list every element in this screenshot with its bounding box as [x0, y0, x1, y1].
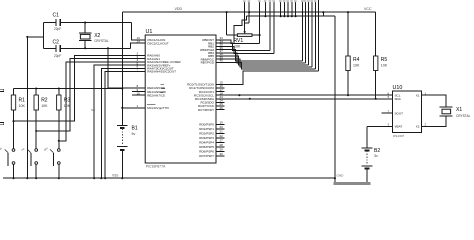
wire VDD left vertical to B1	[121, 12, 123, 125]
U10 pin SOUT 7	[382, 109, 393, 113]
wire RA5 down	[104, 72, 145, 180]
wire OSC1 connection	[132, 23, 146, 40]
wire U10 X1 pin 1 to crystal	[422, 91, 447, 107]
svg-text:RD5/PSP5: RD5/PSP5	[199, 145, 214, 149]
X1 labels	[456, 107, 471, 118]
wire ground distribution line below bus	[246, 15, 335, 17]
push button 3	[50, 141, 60, 179]
svg-text:C1: C1	[53, 13, 60, 19]
wire LCD VDD pin drop	[248, 0, 250, 23]
svg-text:RD2/PSP2: RD2/PSP2	[199, 132, 214, 136]
button 2 label	[20, 146, 26, 152]
wire pullup rail	[14, 87, 123, 89]
B2 labels	[374, 148, 380, 158]
U10 part name DS1307	[393, 134, 404, 138]
svg-text:CRYSTAL: CRYSTAL	[94, 39, 109, 43]
svg-text:RA5/AN4/SS/C2OUT: RA5/AN4/SS/C2OUT	[147, 70, 176, 74]
svg-text:19: 19	[220, 121, 224, 125]
U10 ref label	[393, 85, 403, 91]
svg-text:29: 29	[220, 148, 224, 152]
wire ground drop right	[334, 16, 336, 182]
IC U1 PIC16F877A body	[145, 35, 216, 163]
push button 1	[5, 121, 15, 179]
button 1 label	[0, 146, 3, 152]
wire C nets left vertical	[43, 23, 45, 49]
svg-text:X1: X1	[416, 94, 420, 98]
wire OSC2 connection	[130, 43, 145, 48]
wire RB7 to LCD	[225, 62, 316, 69]
resistor R4	[346, 11, 350, 95]
svg-text:RD1/PSP1: RD1/PSP1	[199, 127, 214, 131]
U1 left pin numbers	[137, 36, 141, 108]
svg-text:R2: R2	[41, 97, 48, 103]
svg-text:C2: C2	[53, 40, 60, 46]
off-sheet mark middle	[0, 123, 4, 125]
X2 labels	[94, 33, 109, 43]
svg-text:U1: U1	[146, 29, 153, 35]
svg-text:SOUT: SOUT	[395, 111, 404, 115]
U1 right pin numbers	[220, 36, 224, 156]
U10 pin SDA number 5	[388, 95, 390, 99]
svg-text:U10: U10	[393, 85, 403, 91]
wire LCD pin verticals from top edge	[260, 0, 319, 71]
R3 labels	[64, 97, 71, 108]
wire RC0 to LCD	[225, 71, 319, 84]
svg-text:22: 22	[220, 134, 224, 138]
svg-text:10K: 10K	[234, 44, 241, 48]
svg-text:OSC2/CLKOUT: OSC2/CLKOUT	[147, 41, 169, 45]
svg-text:RD7/PSP7: RD7/PSP7	[199, 154, 214, 158]
battery B1	[117, 125, 128, 179]
ghost cut-off LCD pin labels at top	[243, 0, 316, 2]
net label VSS	[112, 174, 118, 178]
svg-text:B1: B1	[132, 126, 138, 132]
svg-text:DS1307: DS1307	[393, 134, 404, 138]
R4 labels	[353, 57, 360, 68]
node VCC label	[364, 7, 372, 11]
wire VDD top bus	[122, 11, 375, 13]
wire C ground vertical	[26, 37, 28, 179]
resistor R5	[374, 12, 378, 99]
svg-text:RE2/AN7/CS: RE2/AN7/CS	[147, 93, 165, 97]
svg-text:26: 26	[220, 106, 224, 110]
wire SDA net RC4 to U10	[225, 98, 393, 100]
RV1 value 10K	[234, 44, 241, 48]
svg-text:10: 10	[137, 91, 141, 95]
svg-text:RC7/RX/DT: RC7/RX/DT	[198, 108, 214, 112]
svg-text:3v: 3v	[374, 154, 378, 158]
wire branch to ground	[26, 36, 43, 38]
svg-text:20: 20	[220, 125, 224, 129]
U1 left pin stubs	[132, 40, 145, 108]
svg-text:5v: 5v	[132, 132, 136, 136]
wire LCD VEE pin drop to RV1 wiper	[245, 0, 250, 30]
R5 labels	[381, 57, 388, 68]
svg-text:X1: X1	[456, 107, 462, 113]
node VDD label	[175, 7, 183, 11]
IC U10 DS1307 body	[393, 91, 422, 133]
wire LCD pins terminating on ground line	[264, 0, 296, 17]
svg-text:10K: 10K	[381, 64, 388, 68]
capacitor C2	[44, 45, 131, 52]
svg-text:22pF: 22pF	[54, 27, 61, 31]
C1 labels	[53, 13, 62, 32]
RV1 ref label	[234, 38, 244, 44]
wire RA0 to button 1	[14, 56, 146, 122]
off-sheet mark upper	[0, 89, 4, 91]
wire RB6 to LCD	[225, 59, 313, 67]
resistor R1	[11, 89, 15, 123]
wire RB3 to LCD	[225, 50, 303, 61]
crystal X2	[79, 23, 92, 49]
svg-text:RD3/PSP3: RD3/PSP3	[199, 136, 214, 140]
net label Sw	[91, 108, 96, 112]
svg-text:VBAT: VBAT	[395, 125, 403, 129]
svg-text:10K: 10K	[41, 104, 48, 108]
svg-text:X2: X2	[416, 125, 420, 129]
svg-text:VCC: VCC	[364, 7, 372, 11]
svg-text:CRYSTAL: CRYSTAL	[456, 114, 471, 118]
svg-text:SDA: SDA	[395, 97, 402, 101]
B1 labels	[132, 126, 138, 137]
svg-text:40: 40	[220, 59, 224, 63]
R1 labels	[19, 97, 26, 108]
C2 labels	[53, 40, 62, 58]
svg-text:VSS: VSS	[112, 174, 118, 178]
svg-text:R4: R4	[353, 57, 360, 63]
svg-text:X2: X2	[94, 33, 100, 39]
wire RA3 down	[93, 65, 145, 179]
wire staircase from lower line to nest	[234, 16, 246, 43]
resistor R2	[34, 89, 38, 133]
wire MCLR connection	[122, 107, 145, 109]
svg-text:RB7/PGD: RB7/PGD	[201, 61, 215, 65]
button 3 label	[43, 146, 49, 152]
svg-text:RD4/PSP4: RD4/PSP4	[199, 141, 214, 145]
U1 part name PIC16F877A	[146, 165, 166, 169]
svg-text:21: 21	[220, 130, 224, 134]
potentiometer RV1	[226, 11, 261, 36]
wire C2 junction down to RE0	[108, 48, 145, 88]
crystal X1	[440, 107, 453, 116]
U1 left pin names	[147, 38, 181, 110]
U10 pin VBAT 3	[367, 123, 393, 127]
wire RB1 to LCD	[225, 43, 271, 51]
svg-text:B2: B2	[374, 148, 380, 154]
svg-text:30: 30	[220, 152, 224, 156]
svg-text:R5: R5	[381, 57, 388, 63]
push button 2	[27, 131, 37, 179]
wire RB4 to LCD	[225, 53, 306, 63]
svg-text:RD6/PSP6: RD6/PSP6	[199, 150, 214, 154]
svg-text:22pF: 22pF	[54, 54, 61, 58]
svg-text:MCLR/Vpp/THV: MCLR/Vpp/THV	[147, 106, 170, 110]
wire RB2 to LCD	[225, 46, 275, 53]
wire SCL net RC3 to U10	[225, 94, 393, 96]
U1 right pin names	[187, 38, 215, 158]
wire tie bus to lower line	[322, 11, 324, 16]
svg-text:10K: 10K	[353, 64, 360, 68]
wire RA4 down	[100, 68, 145, 179]
capacitor C1	[44, 19, 132, 26]
svg-text:27: 27	[220, 139, 224, 143]
wire RA1 to button 2	[36, 59, 145, 131]
resistor R3	[57, 89, 61, 142]
U1 right pin stubs	[216, 40, 225, 156]
U10 pin SCL number 6	[388, 91, 390, 95]
wire VSS ground rail	[3, 177, 336, 179]
wire RB5 to LCD	[225, 56, 309, 65]
battery B2	[361, 126, 372, 182]
svg-text:VDD: VDD	[175, 7, 183, 11]
wire RA2 to button 3	[59, 62, 145, 141]
svg-text:RD0/PSP0: RD0/PSP0	[199, 123, 214, 127]
U10 pin names	[395, 94, 420, 129]
R2 labels	[41, 97, 48, 108]
svg-text:R3: R3	[64, 97, 71, 103]
wire U10 X2 pin 2 to crystal	[422, 116, 447, 127]
svg-text:10K: 10K	[19, 104, 26, 108]
U1 ref label	[146, 29, 153, 35]
svg-text:28: 28	[220, 143, 224, 147]
svg-text:GND: GND	[337, 174, 345, 178]
ground bar GND	[334, 174, 371, 185]
svg-text:PIC16F877A: PIC16F877A	[146, 165, 166, 169]
svg-text:R1: R1	[19, 97, 26, 103]
wire RB0 to LCD	[225, 40, 260, 44]
